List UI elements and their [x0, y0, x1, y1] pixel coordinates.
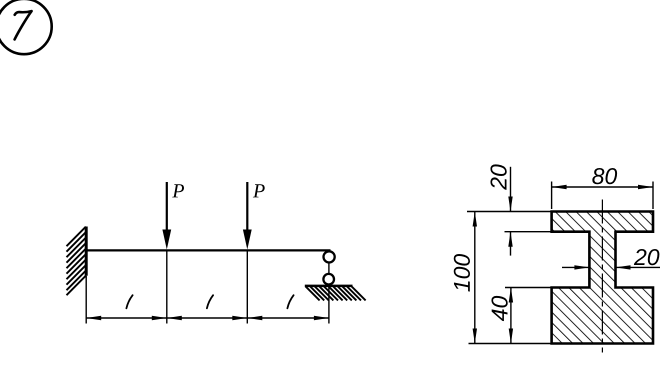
roller circle lower	[323, 274, 334, 285]
roller support link	[328, 250, 330, 286]
problem number circle	[0, 0, 52, 54]
extension line under roller	[328, 286, 330, 324]
roller ground line	[305, 285, 353, 288]
extension line under P1	[166, 250, 168, 323]
extension line flange top left	[467, 211, 552, 213]
label 7	[15, 11, 32, 39]
extension line block top left	[505, 287, 552, 289]
label 20 flange	[490, 164, 506, 190]
span dimension line	[86, 317, 329, 319]
dimension 80 extension left	[551, 182, 553, 210]
cross-section hatched body	[552, 212, 653, 344]
extension line bottom left	[469, 343, 552, 345]
dimension 80 extension right	[652, 182, 654, 210]
roller ground hatching	[306, 286, 366, 300]
wall hatching	[67, 227, 86, 296]
label l3	[287, 295, 293, 308]
label 20 web	[634, 249, 660, 265]
dimension 20 web: right leader	[616, 266, 661, 268]
dimension 20 web: left leader	[562, 266, 589, 268]
load P1 arrow	[166, 182, 168, 234]
extension line under P2	[246, 250, 248, 323]
dimension 40 line	[510, 288, 512, 344]
label P1	[172, 184, 184, 197]
roller circle upper	[324, 251, 335, 262]
dimension 20 flange: lower leader	[510, 232, 512, 256]
fixed support wall	[85, 227, 88, 276]
vertical centerline	[601, 200, 603, 353]
dim arrows span l1	[86, 316, 101, 320]
label l2	[207, 295, 213, 308]
dimension 80 line	[552, 186, 653, 188]
dim arrows span l3	[247, 316, 262, 320]
beam	[86, 249, 330, 251]
dimension 100 line	[474, 212, 476, 344]
extension line under wall	[85, 276, 87, 324]
label l1	[126, 295, 132, 308]
label 40	[491, 296, 507, 321]
extension line flange bottom left	[505, 231, 552, 233]
label 80	[592, 168, 617, 184]
label 100	[454, 254, 470, 292]
dimension 20 flange: upper leader	[510, 167, 512, 212]
load P2 arrow	[246, 182, 248, 234]
label P2	[253, 184, 265, 197]
dim arrows span l2	[167, 316, 182, 320]
